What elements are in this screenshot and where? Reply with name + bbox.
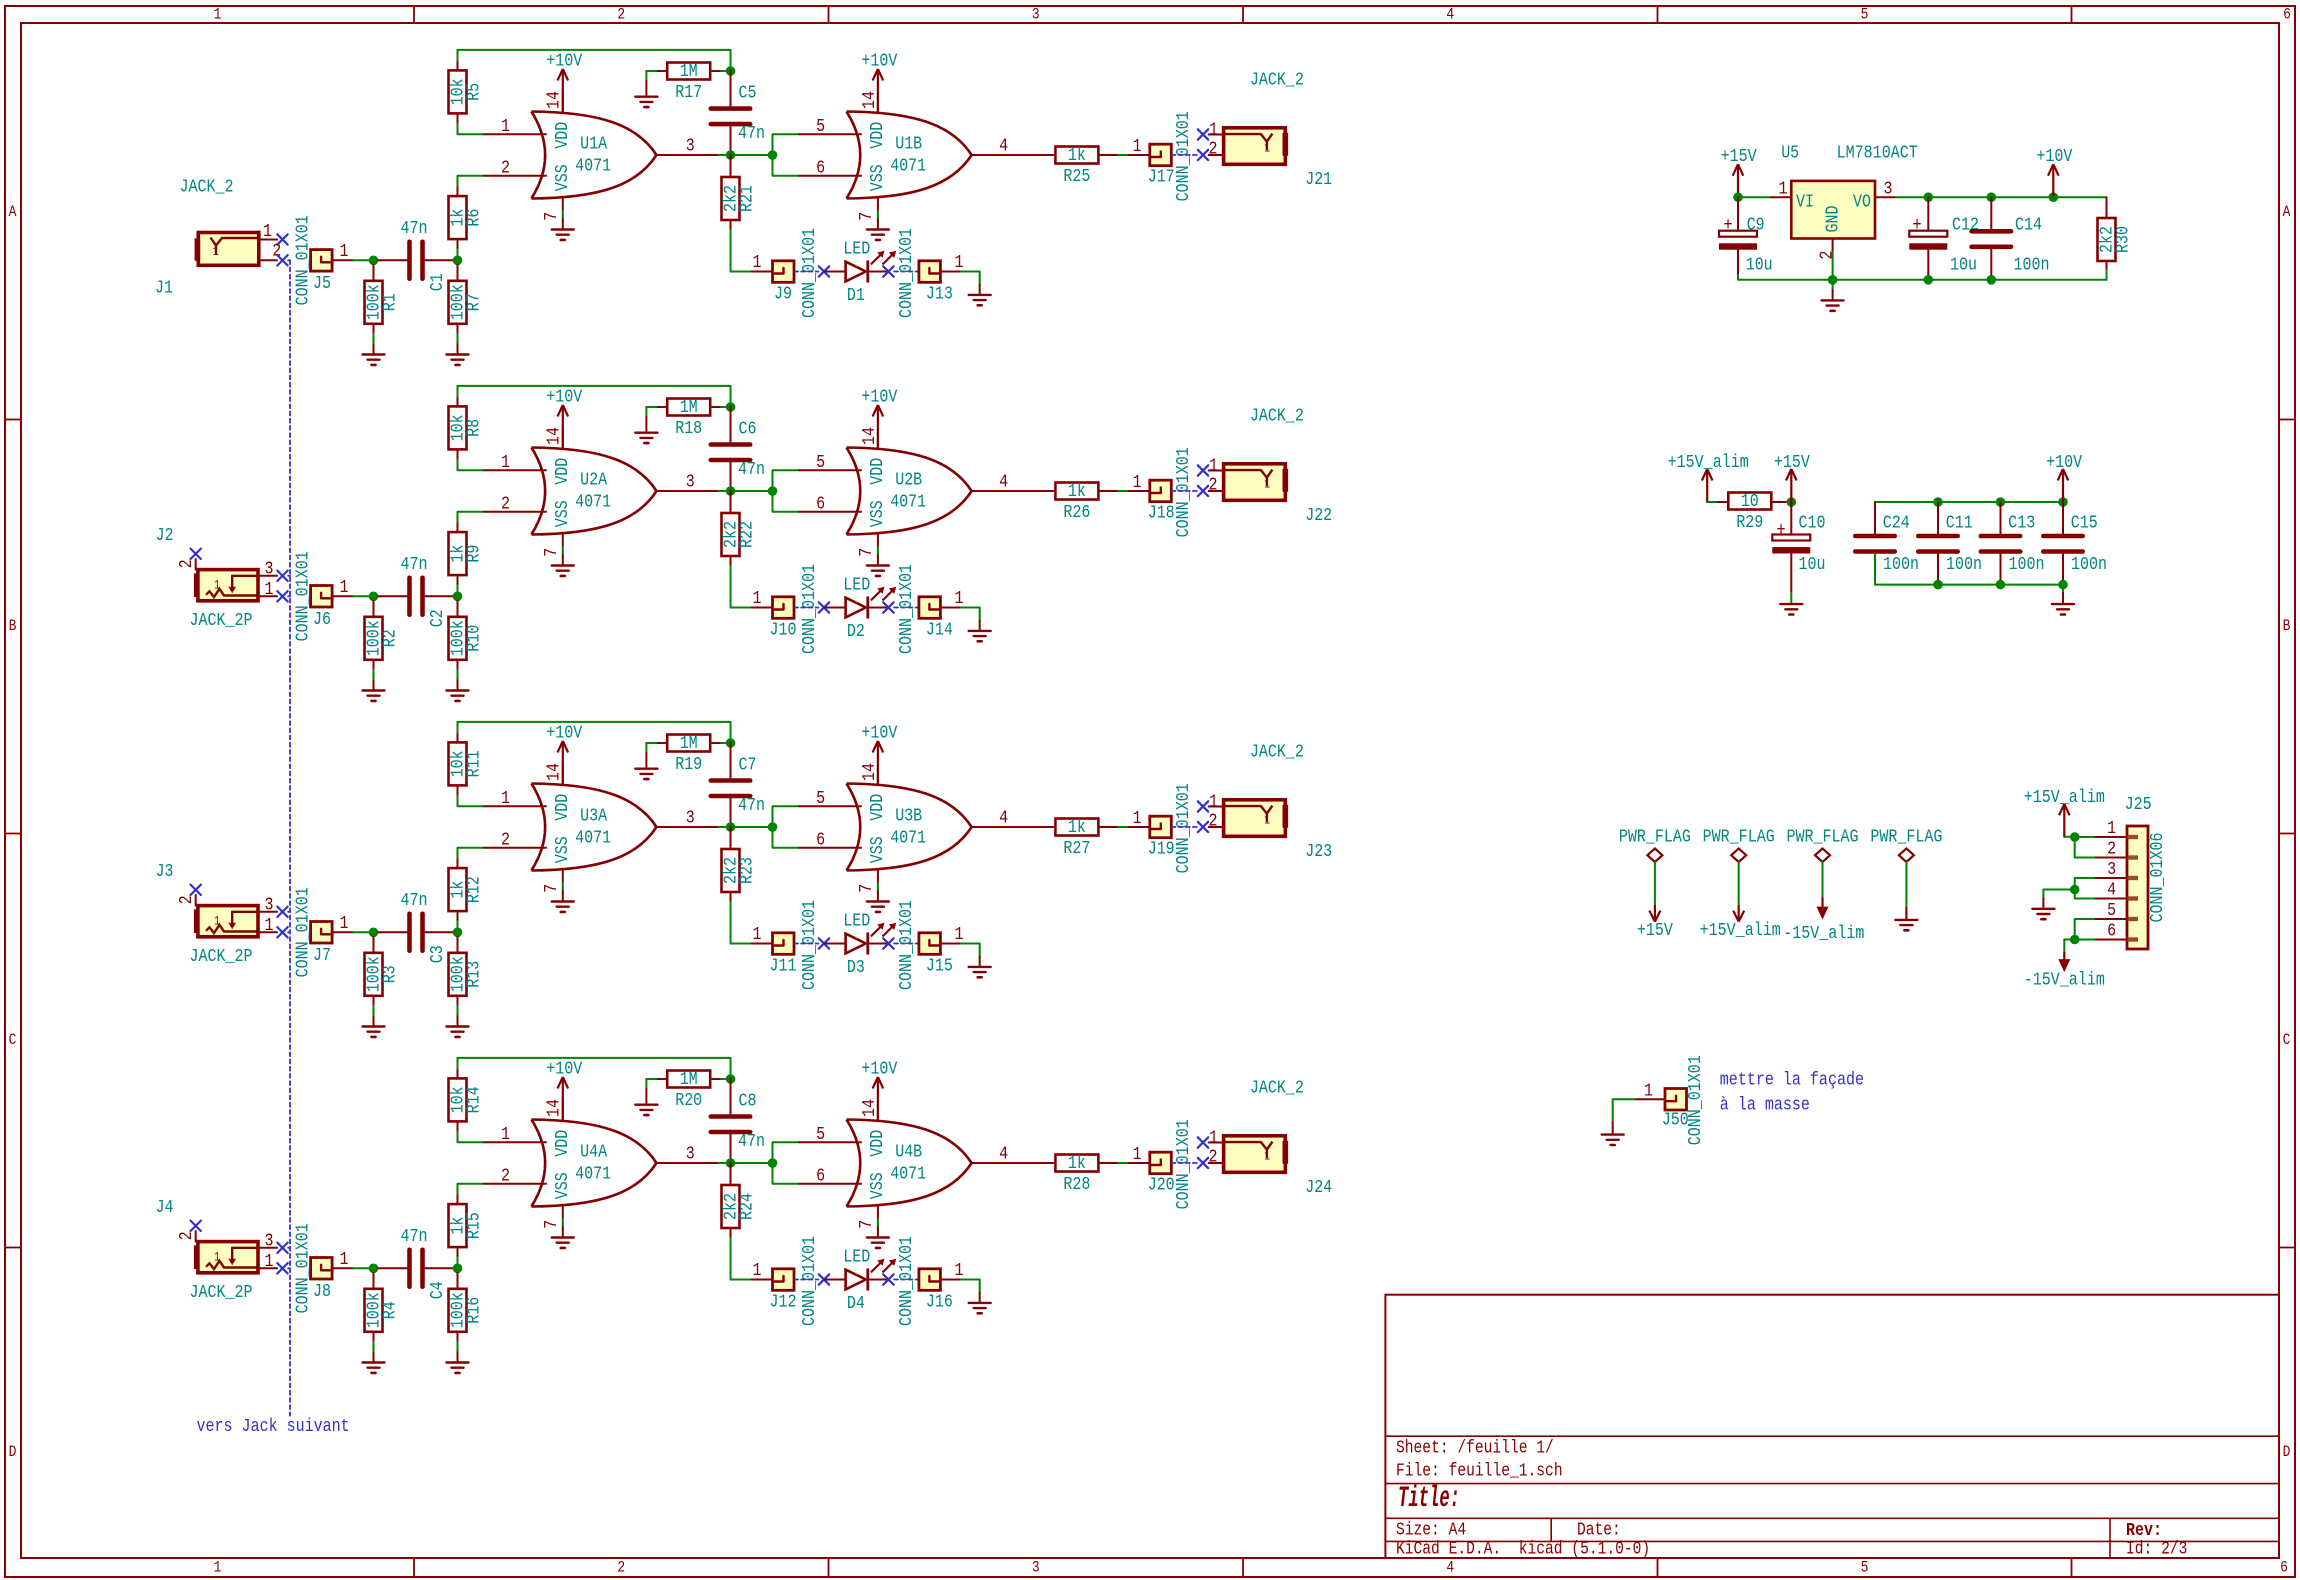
svg-text:CONN_01X01: CONN_01X01 [896, 1236, 917, 1326]
svg-text:1: 1 [501, 788, 510, 809]
svg-text:+10V: +10V [861, 722, 897, 743]
resistor R6 1k [448, 196, 485, 239]
svg-text:R1: R1 [380, 293, 401, 311]
node [1996, 497, 2006, 507]
svg-text:VI: VI [1796, 192, 1814, 213]
svg-text:Id: 2/3: Id: 2/3 [2126, 1539, 2187, 1559]
dashed link [794, 607, 818, 609]
no-connect on J2 pin 3 [277, 571, 287, 581]
svg-text:14: 14 [544, 91, 565, 109]
resistor R5 10k [448, 70, 485, 113]
node [726, 738, 736, 748]
svg-text:-15V_alim: -15V_alim [2024, 969, 2105, 990]
svg-text:100n: 100n [1946, 554, 1982, 575]
svg-text:47n: 47n [401, 554, 428, 575]
node [1933, 497, 1943, 507]
svg-text:R15: R15 [464, 1212, 485, 1239]
node [768, 1158, 778, 1168]
svg-text:Title:: Title: [1398, 1482, 1460, 1516]
capacitor C8 47n [711, 1091, 765, 1153]
svg-text:J18: J18 [1148, 503, 1175, 524]
ground [447, 1363, 469, 1373]
node [369, 928, 379, 938]
svg-text:+15V_alim: +15V_alim [1700, 920, 1781, 941]
connector J11 (CONN_01X01) [770, 900, 821, 990]
node [2070, 832, 2080, 842]
wire [646, 71, 666, 97]
power +15V (U5 input) [1721, 146, 1757, 197]
op-gate U2B 4071 [847, 448, 972, 535]
node [1987, 192, 1997, 202]
wire [1874, 552, 1876, 585]
svg-text:1: 1 [1264, 140, 1270, 155]
ground [635, 433, 657, 443]
U1A pin 3 [657, 135, 727, 156]
jack J21 ref [1305, 169, 1332, 190]
svg-text:7: 7 [541, 884, 562, 893]
wire [731, 1228, 752, 1280]
dashed tie J3 pin 1 [288, 931, 290, 933]
ground [552, 1238, 574, 1248]
jack J21 (JACK_2) body [1224, 128, 1289, 165]
capacitor C14 100n [1972, 214, 2050, 275]
wire [1927, 197, 1929, 231]
J17 pin 1 [1128, 136, 1150, 157]
dashed link [894, 607, 919, 609]
dashed link [1171, 1162, 1197, 1164]
svg-text:14: 14 [544, 763, 565, 781]
dashed link [794, 271, 818, 273]
jack J3 (JACK_2P) body [194, 906, 258, 937]
wire [730, 71, 732, 108]
svg-text:VSS: VSS [867, 500, 888, 527]
jack J22 ref [1305, 505, 1332, 526]
wire [1937, 552, 1939, 585]
svg-text:J24: J24 [1305, 1177, 1332, 1198]
node [369, 1264, 379, 1274]
J10 pin 1 [752, 588, 773, 609]
capacitor C3 47n [401, 890, 449, 964]
resistor R28 1k [1055, 1153, 1098, 1195]
wire [1035, 826, 1055, 828]
LED D2 [824, 574, 896, 642]
title block [1385, 1295, 2279, 1560]
svg-text:+15V_alim: +15V_alim [1668, 452, 1749, 473]
dashed link [794, 1279, 818, 1281]
svg-text:1: 1 [2107, 818, 2116, 839]
svg-text:2: 2 [501, 1166, 510, 1187]
svg-text:R8: R8 [464, 419, 485, 437]
svg-text:R11: R11 [464, 750, 485, 777]
svg-text:CONN_01X01: CONN_01X01 [1685, 1055, 1706, 1145]
svg-text:4071: 4071 [890, 155, 926, 176]
wire [731, 556, 752, 608]
wire [773, 1142, 800, 1163]
connector J14 (CONN_01X01) [896, 564, 953, 654]
node [726, 66, 736, 76]
dashed link [894, 271, 919, 273]
svg-text:2: 2 [2107, 839, 2116, 860]
svg-text:5: 5 [2107, 900, 2116, 921]
ground [363, 1027, 385, 1037]
dashed tie J4 pin 1 [288, 1267, 290, 1269]
U1A pin 1 [484, 116, 546, 137]
svg-text:1: 1 [1644, 1081, 1653, 1102]
svg-text:4: 4 [999, 471, 1008, 492]
connector J8 (CONN_01X01) [293, 1223, 333, 1313]
svg-text:R13: R13 [464, 961, 485, 988]
connector J12 (CONN_01X01) [770, 1236, 821, 1326]
U3A pin 2 [484, 830, 546, 851]
no-connect on D2 anode [819, 602, 829, 612]
jack J23 pin 1 [1209, 791, 1224, 812]
wire [730, 1079, 732, 1116]
node [453, 592, 463, 602]
svg-text:J13: J13 [926, 284, 953, 305]
wire [457, 575, 459, 592]
svg-text:J8: J8 [313, 1281, 331, 1302]
svg-text:10u: 10u [1746, 255, 1773, 276]
U4A pin 2 [484, 1166, 546, 1187]
U3B pin 5 [799, 788, 861, 809]
J6 pin 1 [332, 577, 353, 598]
svg-text:U4A: U4A [580, 1142, 608, 1163]
power +10V (U3B) [861, 722, 897, 783]
J25 pin 5 [2094, 900, 2127, 921]
svg-text:J5: J5 [313, 273, 331, 294]
node [2049, 192, 2059, 202]
svg-text:J3: J3 [156, 861, 174, 882]
svg-text:1: 1 [1133, 136, 1142, 157]
svg-text:1: 1 [1264, 1148, 1270, 1163]
svg-text:4071: 4071 [890, 827, 926, 848]
svg-text:C10: C10 [1799, 513, 1826, 534]
svg-text:GND: GND [1822, 206, 1843, 233]
svg-text:LED: LED [843, 574, 870, 595]
svg-text:14: 14 [544, 427, 565, 445]
U4A pin 7 [541, 1207, 563, 1238]
svg-text:6: 6 [2283, 6, 2291, 24]
svg-text:VDD: VDD [552, 1130, 573, 1157]
J14 pin 1 [940, 588, 963, 609]
J18 pin 1 [1128, 472, 1150, 493]
resistor R20 1M [667, 1069, 710, 1111]
U4B pin 7 [856, 1207, 878, 1238]
svg-text:D3: D3 [847, 957, 865, 978]
U4A pin 3 [657, 1143, 727, 1164]
dashed bus 'vers Jack suivant' [289, 260, 291, 1415]
wire [1896, 196, 2054, 198]
jack J24 pin 2 [1209, 1147, 1224, 1168]
svg-text:CONN_01X01: CONN_01X01 [896, 228, 917, 318]
svg-text:VDD: VDD [552, 458, 573, 485]
ground [635, 769, 657, 779]
svg-text:R30: R30 [2113, 226, 2134, 253]
wire [458, 50, 731, 71]
power flag 3 [1783, 827, 1864, 944]
svg-text:R29: R29 [1736, 512, 1763, 533]
svg-text:1: 1 [1209, 455, 1218, 476]
resistor R30 2k2 [2097, 218, 2134, 261]
svg-text:3: 3 [686, 471, 695, 492]
svg-text:7: 7 [856, 1220, 877, 1229]
svg-text:1: 1 [955, 924, 964, 945]
power +15V (alim tie) [1774, 452, 1810, 502]
svg-text:+10V: +10V [861, 50, 897, 71]
svg-text:CONN_01X01: CONN_01X01 [1173, 111, 1194, 201]
svg-text:D: D [2283, 1443, 2291, 1461]
dashed link [794, 943, 818, 945]
svg-text:14: 14 [859, 91, 880, 109]
svg-text:File: feuille_1.sch: File: feuille_1.sch [1396, 1462, 1563, 1482]
svg-text:R23: R23 [737, 857, 758, 884]
U2A pin 2 [484, 494, 546, 515]
dashed link [1171, 490, 1197, 492]
node [1924, 275, 1934, 285]
svg-text:VSS: VSS [867, 1172, 888, 1199]
connector J17 (CONN_01X01) [1148, 111, 1194, 201]
wire [378, 595, 409, 597]
connector J15 (CONN_01X01) [896, 900, 953, 990]
jack J4 pin 1 [258, 1251, 277, 1272]
U2B pin 4 [972, 471, 1036, 492]
svg-text:CONN_01X01: CONN_01X01 [1173, 783, 1194, 873]
wire [773, 470, 800, 491]
wire [1707, 501, 1717, 503]
power flag 1 [1619, 827, 1691, 941]
svg-text:PWR_FLAG: PWR_FLAG [1619, 827, 1691, 848]
svg-text:1: 1 [1209, 791, 1218, 812]
svg-text:10u: 10u [1799, 554, 1826, 575]
power +10V (U1A) [546, 50, 582, 111]
svg-text:R22: R22 [737, 521, 758, 548]
svg-text:R7: R7 [464, 293, 485, 311]
U1A pin 14 [544, 91, 565, 112]
jack J3 pin 3 [258, 894, 277, 915]
svg-text:J4: J4 [156, 1197, 174, 1218]
no-connect on J3 pin 3 [277, 907, 287, 917]
U1A pin 2 [484, 158, 546, 179]
svg-text:47n: 47n [738, 459, 765, 480]
svg-text:100n: 100n [2014, 255, 2050, 276]
capacitor C10 10u [1772, 513, 1825, 575]
J12 pin 1 [752, 1260, 773, 1281]
svg-text:vers Jack suivant: vers Jack suivant [197, 1416, 350, 1437]
svg-text:5: 5 [816, 116, 825, 137]
svg-text:J16: J16 [926, 1292, 953, 1313]
U1A pin 7 [541, 199, 563, 230]
svg-text:JACK_2: JACK_2 [1250, 405, 1304, 426]
node [2058, 580, 2068, 590]
wire [2064, 940, 2074, 960]
svg-text:1: 1 [340, 913, 349, 934]
svg-text:7: 7 [856, 884, 877, 893]
wire [1937, 502, 1939, 536]
U1B pin 14 [859, 91, 880, 112]
svg-text:+15V: +15V [1721, 146, 1757, 167]
dashed tie J4 pin 3 [288, 1247, 290, 1249]
resistor R3 100k [364, 953, 401, 996]
svg-text:CONN_01X01: CONN_01X01 [799, 228, 820, 318]
svg-text:U2B: U2B [895, 470, 922, 491]
svg-text:VDD: VDD [867, 122, 888, 149]
svg-text:J6: J6 [313, 609, 331, 630]
no-connect on D1 cathode [883, 266, 893, 276]
U2B pin 6 [799, 494, 861, 515]
jack J2 ref [156, 525, 174, 546]
svg-text:100n: 100n [1883, 554, 1919, 575]
wire [457, 937, 459, 953]
dashed tie J3 pin 3 [288, 911, 290, 913]
svg-text:2: 2 [1816, 251, 1837, 260]
node [726, 1074, 736, 1084]
no-connect on J21 pin 1 [1198, 129, 1208, 139]
wire [458, 848, 485, 868]
svg-text:VSS: VSS [552, 500, 573, 527]
svg-text:6: 6 [816, 158, 825, 179]
ground [1822, 300, 1844, 310]
jack J1 (JACK_2) body [195, 233, 259, 266]
svg-text:R27: R27 [1063, 838, 1090, 859]
connector J16 (CONN_01X01) [896, 1236, 953, 1326]
wire [646, 407, 666, 433]
connector J18 (CONN_01X01) [1148, 447, 1194, 537]
node [369, 592, 379, 602]
jack J21 pin 1 [1209, 119, 1224, 140]
wire [423, 931, 453, 933]
no-connect on J1 pin 2 [277, 255, 287, 265]
jack J2 pin 2 [176, 559, 197, 570]
svg-text:1M: 1M [680, 1069, 698, 1090]
capacitor C5 47n [711, 83, 765, 145]
wire [1771, 501, 1786, 503]
capacitor C7 47n [711, 755, 765, 817]
svg-text:4: 4 [1446, 1559, 1454, 1577]
wire [961, 272, 980, 295]
wire [2062, 502, 2064, 536]
svg-text:+10V: +10V [861, 1058, 897, 1079]
node [1987, 275, 1997, 285]
wire [458, 176, 485, 196]
U4B pin 14 [859, 1099, 880, 1120]
svg-text:A: A [2283, 203, 2291, 221]
svg-text:3: 3 [2107, 859, 2116, 880]
svg-text:+15V_alim: +15V_alim [2024, 787, 2105, 808]
jack J3 pin 1 [258, 915, 277, 936]
wire [730, 491, 732, 513]
wire [2053, 197, 2106, 218]
wire [458, 1184, 485, 1204]
svg-text:J19: J19 [1148, 839, 1175, 860]
svg-text:U1B: U1B [895, 134, 922, 155]
U2B pin 5 [799, 452, 861, 473]
jack J4 pin 2 [176, 1231, 197, 1242]
svg-text:47n: 47n [738, 1131, 765, 1152]
wire [1790, 502, 1792, 535]
svg-text:U1A: U1A [580, 134, 608, 155]
svg-text:KiCad E.D.A. kicad (5.1.0-0): KiCad E.D.A. kicad (5.1.0-0) [1396, 1539, 1650, 1559]
svg-text:1: 1 [501, 116, 510, 137]
resistor R24 2k2 [721, 1185, 758, 1228]
jack J23 pin 2 [1209, 811, 1224, 832]
svg-text:5: 5 [1861, 6, 1869, 24]
wire [423, 595, 453, 597]
jack J4 name [189, 1282, 252, 1303]
wire [1035, 490, 1055, 492]
wire [731, 826, 773, 828]
svg-text:+15V: +15V [1637, 920, 1673, 941]
svg-text:R20: R20 [675, 1090, 702, 1111]
resistor R2 100k [364, 617, 401, 660]
jack J1 name [179, 177, 233, 198]
wire [731, 1162, 773, 1164]
U3A pin 1 [484, 788, 546, 809]
svg-text:U3B: U3B [895, 806, 922, 827]
svg-text:4: 4 [999, 1143, 1008, 1164]
svg-text:7: 7 [856, 212, 877, 221]
svg-text:1k: 1k [1068, 481, 1086, 502]
wire [1875, 502, 2063, 535]
wire [711, 406, 726, 408]
svg-text:J20: J20 [1148, 1175, 1175, 1196]
capacitor C1 47n [401, 218, 449, 291]
no-connect on J1 pin 1 [277, 234, 287, 244]
svg-text:1M: 1M [680, 61, 698, 82]
wire [458, 1058, 731, 1079]
svg-text:J22: J22 [1305, 505, 1332, 526]
wire [730, 827, 732, 849]
wire [730, 1132, 732, 1163]
node [1828, 275, 1838, 285]
power +15V_alim [1668, 452, 1749, 502]
resistor R23 2k2 [721, 849, 758, 892]
svg-text:R10: R10 [464, 625, 485, 652]
wire [711, 1078, 726, 1080]
power +10V (U3A) [546, 722, 582, 783]
resistor R18 1M [667, 397, 710, 439]
svg-text:1: 1 [340, 1249, 349, 1270]
resistor R22 2k2 [721, 513, 758, 556]
wire [353, 1267, 369, 1269]
connector J10 (CONN_01X01) [770, 564, 821, 654]
note text [1720, 1070, 1864, 1116]
power +10V (U4A) [546, 1058, 582, 1119]
svg-text:+10V: +10V [546, 722, 582, 743]
svg-text:CONN_01X01: CONN_01X01 [799, 900, 820, 990]
jack J2 pin 3 [258, 558, 277, 579]
jack J1 ref [155, 278, 173, 299]
svg-text:6: 6 [816, 1166, 825, 1187]
jack J22 pin 2 [1209, 475, 1224, 496]
svg-text:3: 3 [1032, 6, 1040, 24]
node [2058, 497, 2068, 507]
svg-text:Sheet: /feuille 1/: Sheet: /feuille 1/ [1396, 1439, 1554, 1459]
svg-text:CONN_01X06: CONN_01X06 [2147, 832, 2168, 922]
op-gate U1B 4071 [847, 112, 972, 199]
connector J9 (CONN_01X01) [773, 228, 821, 318]
svg-text:+10V: +10V [2036, 146, 2072, 167]
svg-text:C: C [9, 1031, 17, 1049]
no-connect on J24 pin 2 [1198, 1158, 1208, 1168]
svg-text:7: 7 [541, 548, 562, 557]
svg-text:2: 2 [617, 1559, 625, 1577]
svg-text:CONN_01X01: CONN_01X01 [799, 1236, 820, 1326]
power +15V_alim (J25) [2024, 787, 2105, 837]
wire [730, 796, 732, 827]
svg-text:R21: R21 [737, 185, 758, 212]
J11 pin 1 [752, 924, 773, 945]
svg-text:LM7810ACT: LM7810ACT [1837, 143, 1918, 164]
